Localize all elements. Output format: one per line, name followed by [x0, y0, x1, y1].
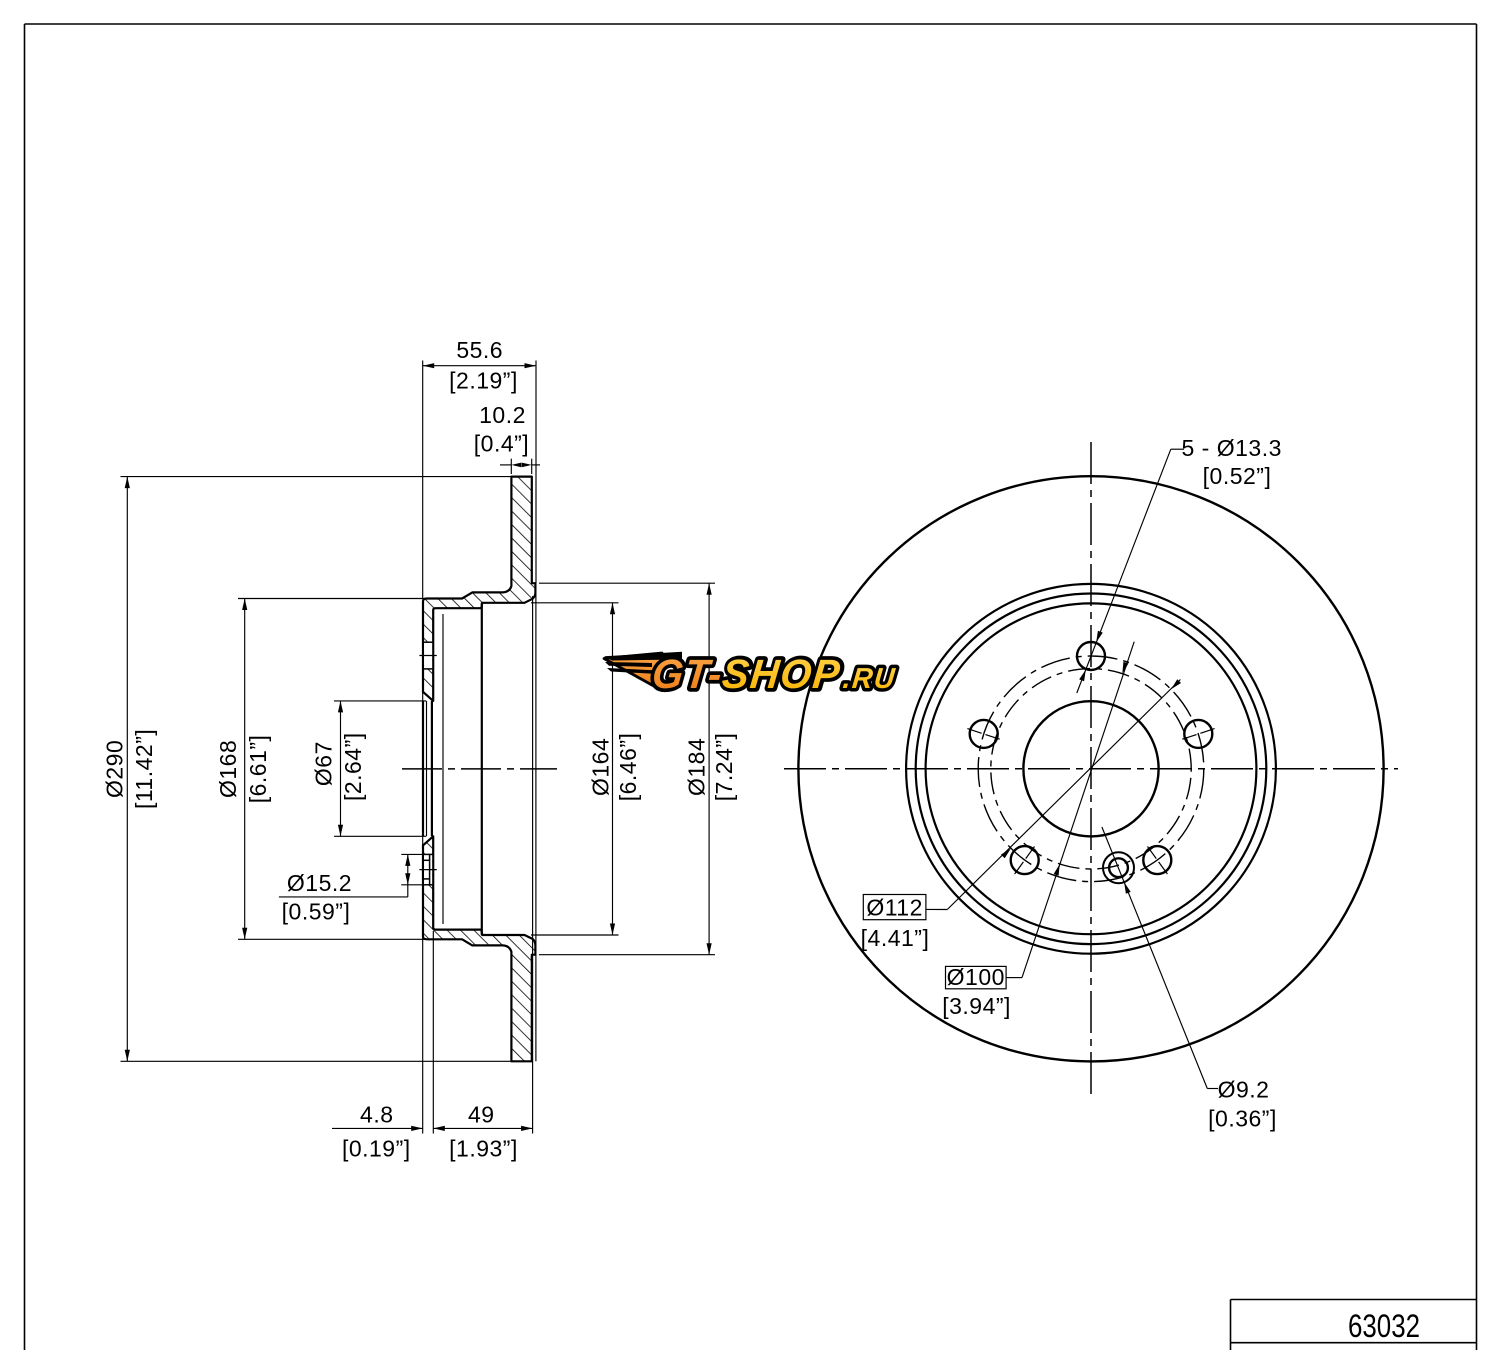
svg-text:10.2: 10.2: [479, 402, 526, 428]
svg-text:Ø15.2: Ø15.2: [287, 870, 352, 896]
leader 5-Ø13.3 line: [1077, 449, 1171, 693]
bolt hole 2 radial centerline tick: [1180, 729, 1214, 740]
front view pin hole Ø9.2: [1109, 858, 1128, 877]
svg-text:[0.4”]: [0.4”]: [474, 431, 529, 457]
dim Ø15.2 extension lines: [401, 853, 422, 855]
svg-text:Ø9.2: Ø9.2: [1218, 1077, 1270, 1103]
dim Ø112 diameter line: [947, 680, 1180, 910]
svg-text:[4.41”]: [4.41”]: [861, 925, 930, 951]
section: center bore silhouette lines: [422, 701, 424, 836]
title block: [1231, 1299, 1477, 1301]
svg-text:Ø67: Ø67: [311, 741, 337, 786]
svg-text:[1.93”]: [1.93”]: [449, 1136, 518, 1162]
bolt hole 4 radial centerline tick: [1015, 845, 1036, 874]
front view outer circle Ø290: [798, 476, 1383, 1061]
front view centerline vertical: [1090, 442, 1092, 1096]
dim 55.6 dimension line with arrows: [423, 365, 536, 367]
leader Ø9.2 line: [1102, 827, 1207, 1089]
label Ø112 box: [863, 895, 926, 920]
svg-text:63032: 63032: [1348, 1308, 1420, 1344]
section: bolt hole void in flange (upper): [424, 642, 432, 669]
front view hat inner circle Ø164: [926, 603, 1257, 934]
svg-text:[3.94”]: [3.94”]: [942, 993, 1011, 1019]
section: bolt hole centerline tick: [419, 655, 436, 657]
svg-text:Ø168: Ø168: [215, 740, 241, 798]
leader 5-Ø13.3 arrows: [1096, 631, 1103, 643]
svg-text:Ø164: Ø164: [588, 738, 614, 796]
bolt hole 3 radial centerline tick: [967, 729, 1001, 740]
svg-text:SHOP: SHOP: [720, 651, 843, 698]
svg-text:Ø184: Ø184: [684, 738, 710, 796]
section view centerline: [402, 768, 557, 770]
section: hat inner cylinder wall: [481, 603, 483, 935]
front view bolt hole 2 (Ø13.3): [1184, 720, 1212, 748]
svg-text:[11.42”]: [11.42”]: [131, 729, 157, 809]
svg-text:[6.61”]: [6.61”]: [245, 735, 271, 804]
svg-text:GT-: GT-: [650, 651, 725, 698]
svg-text:[2.64”]: [2.64”]: [340, 732, 366, 801]
dim Ø290 extension lines: [121, 476, 512, 478]
front view pin hole counterbore Ø15.2: [1103, 852, 1134, 883]
dim Ø100 diameter line: [1022, 642, 1134, 978]
svg-text:.RU: .RU: [841, 663, 897, 695]
front view center bore Ø67: [1023, 701, 1158, 836]
front view bolt hole 1 (Ø13.3): [1077, 642, 1105, 670]
svg-text:4.8: 4.8: [360, 1102, 393, 1128]
front view hat rim circle Ø184: [906, 584, 1276, 954]
front view bolt circle Ø112 dash-dot: [978, 656, 1204, 882]
svg-text:5 - Ø13.3: 5 - Ø13.3: [1182, 435, 1282, 461]
dim Ø184 dimension line with arrows: [708, 583, 710, 955]
dim 4.8 dimension line with arrow: [332, 1127, 423, 1129]
section: hatched lower material (mirror): [423, 836, 535, 1061]
front view pin circle Ø100 dash-dot: [991, 669, 1191, 869]
dim Ø184 extension lines: [539, 582, 715, 584]
dim 10.2 extension lines: [510, 459, 512, 474]
section: hatched upper material (disc ring top + hat wall + mounting flange upper): [423, 477, 535, 701]
logo gt-shop.ru watermark: [604, 651, 899, 698]
dim Ø100 arrows: [1054, 864, 1060, 876]
svg-text:Ø100: Ø100: [947, 964, 1005, 990]
svg-text:[7.24”]: [7.24”]: [711, 733, 737, 802]
dim Ø15.2 dimension line with arrows: [407, 854, 409, 897]
dim Ø168 dimension line with arrows: [244, 599, 246, 940]
svg-text:[0.36”]: [0.36”]: [1208, 1106, 1277, 1132]
dim Ø290 dimension line with arrows: [126, 477, 128, 1062]
leader Ø9.2 arrow: [1124, 882, 1131, 894]
svg-text:[2.19”]: [2.19”]: [449, 368, 518, 394]
svg-text:49: 49: [468, 1102, 495, 1128]
page border frame: [25, 23, 1477, 25]
dim Ø164 extension lines: [531, 602, 619, 604]
svg-text:[0.52”]: [0.52”]: [1203, 463, 1272, 489]
section: pin hole centerline tick: [419, 869, 436, 871]
svg-text:55.6: 55.6: [456, 337, 503, 363]
section: pin hole void with counterbore (lower): [424, 854, 432, 884]
front view bolt hole 5 (Ø13.3): [1143, 846, 1171, 874]
svg-text:[0.59”]: [0.59”]: [282, 899, 351, 925]
svg-text:Ø112: Ø112: [866, 894, 923, 920]
svg-text:Ø290: Ø290: [102, 740, 128, 798]
dim Ø112 arrows: [1001, 848, 1011, 858]
svg-text:[0.19”]: [0.19”]: [342, 1136, 411, 1162]
dim 10.2 arrows (bowtie): [500, 464, 511, 466]
svg-text:[6.46”]: [6.46”]: [615, 733, 641, 802]
front view centerline horizontal: [784, 768, 1398, 770]
dim Ø67 dimension line with arrows: [340, 701, 342, 836]
front view hat step circle: [916, 594, 1267, 945]
dim Ø67 extension lines: [334, 700, 426, 702]
label Ø100 box: [946, 966, 1007, 988]
dim Ø164 dimension line with arrows: [612, 603, 614, 935]
dim 49 dimension line with arrows: [433, 1127, 532, 1129]
logo speed streaks: [604, 652, 682, 661]
dim Ø15.2 leader underline: [279, 896, 408, 898]
front view bolt hole 3 (Ø13.3): [970, 720, 998, 748]
dim 55.6 extension lines: [422, 361, 424, 600]
bolt hole 5 radial centerline tick: [1146, 845, 1167, 874]
front view bolt hole 4 (Ø13.3): [1011, 846, 1039, 874]
section: drum inner edge line: [442, 614, 444, 924]
logo flame wedge: [604, 653, 662, 691]
dim 4.8/49 extension lines: [422, 601, 424, 1134]
dim Ø168 extension lines: [238, 598, 428, 600]
